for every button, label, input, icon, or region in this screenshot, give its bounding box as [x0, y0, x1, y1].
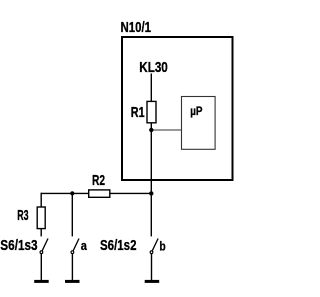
wire switch s3 to ground	[40, 254, 42, 280]
junction dot below R1	[149, 128, 153, 132]
wire R2 to node b	[110, 192, 152, 194]
wire node to microprocessor	[151, 129, 181, 131]
ground below a	[65, 280, 80, 283]
wire switch b to ground	[151, 254, 153, 280]
svg-text:R1: R1	[131, 105, 145, 121]
control unit N10/1 box	[122, 37, 233, 180]
switch S6/1s3 contact circle	[40, 251, 43, 254]
wire R1 bottom to node	[150, 123, 152, 130]
svg-text:a: a	[81, 239, 88, 253]
vertical wire from node through box bottom to switch b	[150, 130, 152, 236]
ground below b	[145, 280, 160, 283]
junction dot at a-branch	[70, 191, 74, 195]
wire R3 to switch s3	[40, 229, 42, 237]
resistor R2	[89, 190, 110, 197]
switch b contact circle	[150, 251, 153, 254]
switch a contact circle	[71, 251, 74, 254]
switch b blade	[152, 239, 158, 251]
wire switch a to ground	[71, 254, 73, 280]
svg-text:S6/1s3: S6/1s3	[0, 238, 37, 254]
resistor R3	[37, 207, 45, 229]
svg-text:R2: R2	[92, 173, 105, 189]
svg-text:b: b	[159, 239, 166, 253]
wire a-branch down to switch a	[71, 193, 73, 236]
switch S6/1s3 blade	[42, 239, 48, 251]
resistor R1	[147, 101, 156, 122]
main horizontal wire left segment	[41, 192, 88, 194]
svg-text:µP: µP	[190, 106, 203, 118]
wire left down to R3	[40, 193, 42, 207]
junction dot at b-branch	[149, 191, 153, 195]
wire KL30 to R1	[150, 74, 152, 102]
microprocessor box U1	[182, 97, 216, 150]
svg-text:R3: R3	[17, 208, 28, 224]
svg-text:S6/1s2: S6/1s2	[100, 238, 137, 254]
ground below s3	[34, 280, 49, 283]
svg-text:N10/1: N10/1	[121, 20, 152, 36]
svg-text:KL30: KL30	[139, 60, 168, 76]
switch a blade	[73, 239, 79, 251]
